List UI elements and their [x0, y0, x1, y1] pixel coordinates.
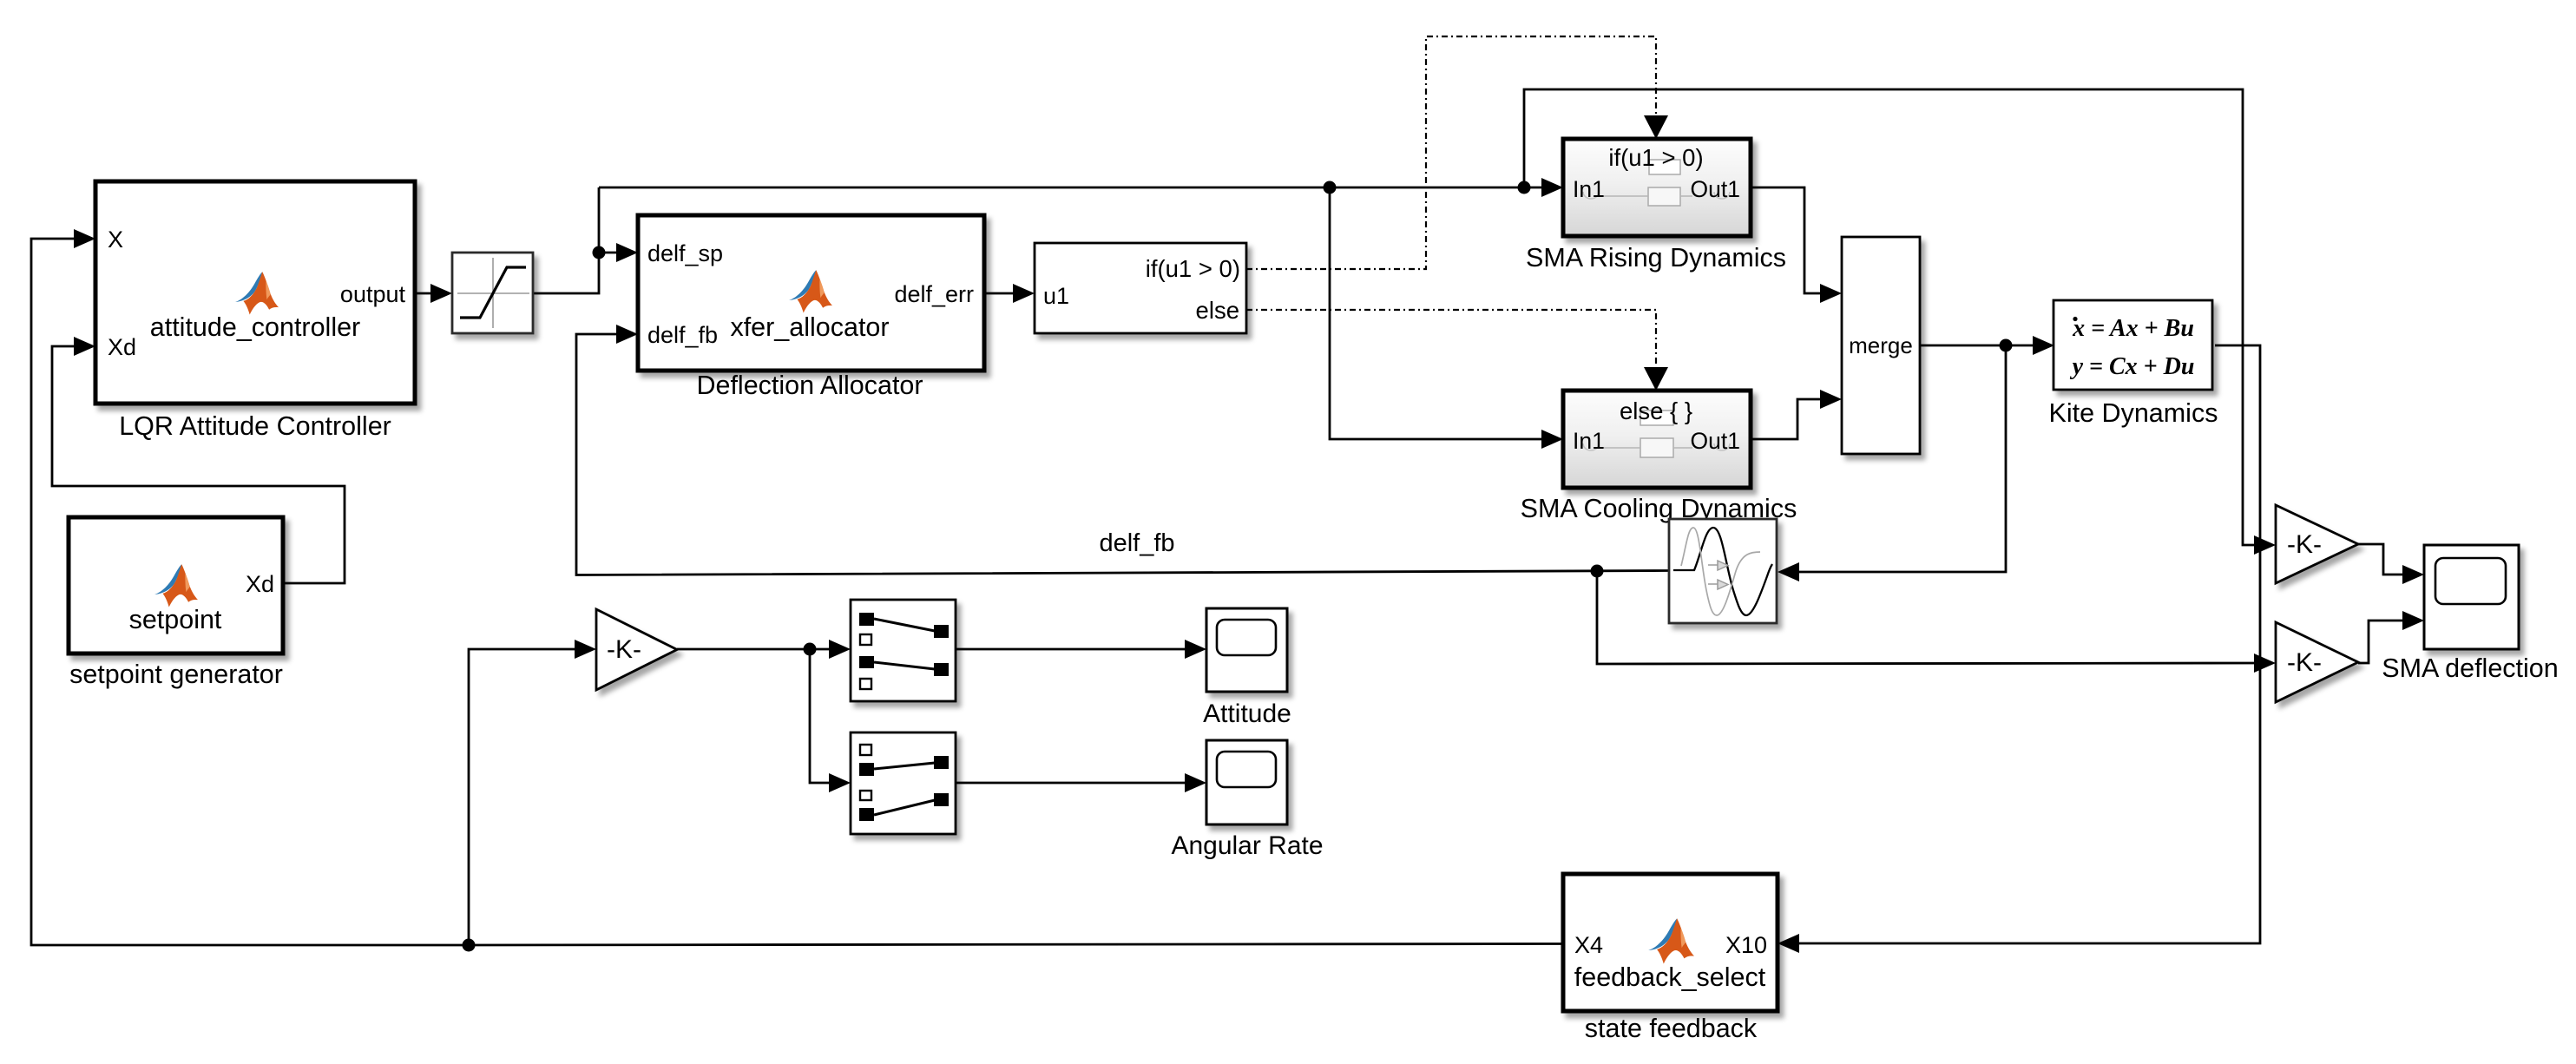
svg-text:attitude_controller: attitude_controller	[150, 312, 360, 342]
svg-text:X4: X4	[1574, 932, 1603, 958]
svg-text:if(u1 > 0): if(u1 > 0)	[1608, 144, 1703, 171]
svg-text:-K-: -K-	[607, 635, 641, 664]
svg-text:In1: In1	[1573, 428, 1605, 454]
svg-text:y = Cx + Du: y = Cx + Du	[2070, 353, 2195, 380]
svg-text:Kite Dynamics: Kite Dynamics	[2049, 398, 2218, 428]
svg-text:In1: In1	[1573, 176, 1605, 202]
svg-text:X10: X10	[1725, 932, 1767, 958]
svg-text:Attitude: Attitude	[1203, 699, 1291, 728]
svg-text:u1: u1	[1043, 283, 1069, 309]
svg-text:delf_err: delf_err	[894, 281, 974, 307]
svg-text:Out1: Out1	[1691, 176, 1740, 202]
svg-text:Xd: Xd	[108, 334, 136, 360]
svg-text:x = Ax + Bu: x = Ax + Bu	[2072, 315, 2194, 342]
svg-text:if(u1 > 0): if(u1 > 0)	[1146, 255, 1240, 282]
svg-text:xfer_allocator: xfer_allocator	[730, 312, 889, 342]
svg-text:delf_fb: delf_fb	[1099, 529, 1174, 557]
svg-text:Angular Rate: Angular Rate	[1171, 831, 1323, 860]
svg-text:state feedback: state feedback	[1585, 1014, 1758, 1043]
svg-text:Deflection Allocator: Deflection Allocator	[696, 371, 923, 400]
svg-text:SMA deflection: SMA deflection	[2382, 654, 2558, 683]
svg-text:delf_fb: delf_fb	[647, 322, 718, 348]
svg-text:Xd: Xd	[246, 571, 274, 597]
svg-text:SMA Rising Dynamics: SMA Rising Dynamics	[1526, 243, 1786, 273]
svg-text:LQR Attitude Controller: LQR Attitude Controller	[119, 411, 391, 441]
svg-text:output: output	[340, 281, 406, 307]
svg-text:setpoint: setpoint	[129, 605, 222, 634]
svg-text:X: X	[108, 227, 123, 253]
svg-text:-K-: -K-	[2287, 530, 2322, 559]
svg-text:-K-: -K-	[2287, 648, 2322, 677]
svg-text:else: else	[1196, 297, 1239, 324]
svg-text:merge: merge	[1849, 332, 1913, 358]
svg-text:delf_sp: delf_sp	[647, 240, 723, 266]
svg-text:feedback_select: feedback_select	[1574, 962, 1766, 992]
svg-text:else { }: else { }	[1620, 397, 1692, 424]
svg-text:Out1: Out1	[1691, 428, 1740, 454]
svg-text:setpoint generator: setpoint generator	[69, 660, 283, 689]
